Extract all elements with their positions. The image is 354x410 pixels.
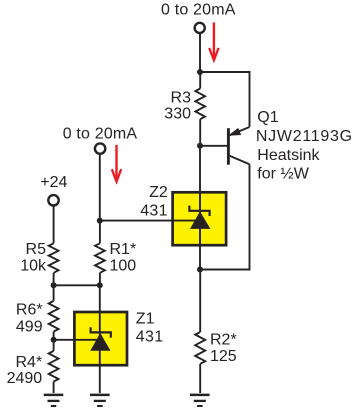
ground (below R2): [190, 395, 210, 406]
label R4* 2490: [7, 354, 43, 387]
label Z1 431: [136, 310, 164, 345]
shunt regulator Z1 (yellow highlight box): [74, 312, 127, 365]
resistor R2: [195, 270, 205, 394]
current arrow (red, left): [112, 145, 121, 182]
wire cathode through Z2: [199, 146, 201, 270]
svg-text:100: 100: [110, 258, 137, 275]
wire left terminal down: [99, 154, 101, 221]
node C junction (collector / R2): [197, 267, 203, 273]
svg-text:431: 431: [140, 202, 168, 219]
wire +24 down: [53, 206, 55, 244]
svg-text:R6*: R6*: [16, 302, 43, 319]
svg-text:0 to 20mA: 0 to 20mA: [161, 1, 236, 18]
resistor R4: [49, 340, 59, 393]
node A junction: [197, 69, 203, 75]
wire Z1 ref stub inside box: [74, 339, 96, 341]
terminal circle (top right input): [195, 23, 205, 33]
svg-text:R3: R3: [171, 89, 192, 106]
shunt regulator Z2 (yellow highlight box): [173, 192, 227, 245]
node D junction: [97, 218, 103, 224]
svg-text:431: 431: [136, 329, 164, 346]
svg-text:+24: +24: [40, 174, 67, 191]
svg-text:Heatsink: Heatsink: [257, 147, 320, 164]
svg-text:10k: 10k: [20, 258, 47, 275]
svg-text:330: 330: [164, 105, 191, 122]
svg-text:for ½W: for ½W: [257, 165, 309, 182]
current arrow (red, top right): [209, 22, 218, 60]
resistor R5: [49, 243, 59, 285]
wire terminal to node A: [199, 33, 201, 72]
node F junction: [51, 282, 57, 288]
terminal circle (left input): [95, 143, 105, 153]
svg-text:499: 499: [16, 318, 43, 335]
ground (below R4): [44, 395, 64, 406]
svg-text:R5: R5: [26, 241, 47, 258]
label R3 330: [164, 89, 191, 122]
resistor R1: [95, 221, 105, 286]
label R6* 499: [16, 302, 43, 336]
svg-text:R1*: R1*: [110, 241, 137, 258]
wire node F to node E: [54, 284, 100, 286]
label R2* 125: [210, 332, 237, 365]
wire base: [200, 145, 227, 147]
svg-text:0 to 20mA: 0 to 20mA: [63, 126, 138, 143]
wire anode/cathode through Z1: [99, 285, 101, 393]
svg-text:2490: 2490: [7, 370, 43, 387]
wire collector rail: [200, 164, 250, 269]
label R1* 100: [110, 241, 137, 275]
terminal circle +24: [48, 195, 58, 205]
node B junction (base node): [197, 143, 203, 149]
zener symbol Z1: [90, 327, 111, 351]
svg-text:Z2: Z2: [149, 184, 168, 201]
svg-text:Q1: Q1: [257, 109, 278, 126]
resistor R6: [49, 285, 59, 340]
resistor R3: [195, 72, 205, 146]
ground (below Z1): [90, 395, 110, 406]
svg-text:Z1: Z1: [136, 310, 155, 327]
label R5 10k: [20, 241, 47, 275]
svg-text:R2*: R2*: [210, 332, 237, 349]
node G junction: [51, 337, 57, 343]
svg-text:R4*: R4*: [16, 354, 43, 371]
wire Z1 reference input: [54, 339, 97, 341]
svg-text:125: 125: [210, 348, 237, 365]
wire node A to emitter rail: [200, 72, 250, 127]
wire Z2 reference input: [100, 220, 197, 222]
node E junction: [97, 282, 103, 288]
svg-text:NJW21193G: NJW21193G: [256, 128, 353, 145]
zener symbol Z2: [189, 206, 210, 229]
transistor Q1: [228, 127, 250, 165]
label Z2 431: [140, 184, 168, 219]
